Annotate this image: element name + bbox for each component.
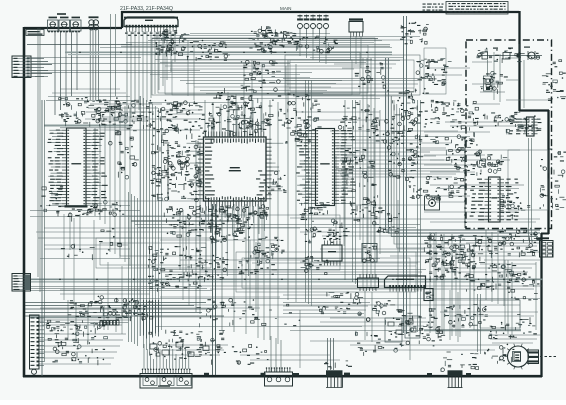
component cluster 60 [122, 299, 153, 321]
component cluster 31 [465, 263, 519, 292]
IC IC801 keyboard ctrl [470, 177, 519, 222]
component cluster 9 [400, 22, 429, 45]
component cluster 6 [275, 31, 299, 47]
boxes right of P1603 [385, 316, 420, 342]
wire mesh extra horizontal [30, 75, 540, 342]
box IC602 [362, 244, 377, 263]
component cluster 72 [416, 60, 443, 83]
bus vertical x385 with bends [386, 58, 540, 252]
note text left [423, 4, 444, 11]
component cluster 1 [59, 97, 120, 127]
component cluster 11 [480, 71, 508, 94]
component cluster 16 [146, 100, 205, 140]
component cluster 62 [232, 344, 269, 365]
component cluster 67 [99, 228, 122, 246]
dash box lower cluster [473, 112, 521, 128]
component cluster 7 [296, 36, 338, 53]
component cluster 69 [284, 120, 311, 144]
line filter coils L901-L903 [48, 13, 82, 31]
component cluster 25 [342, 149, 377, 192]
component cluster 24 [238, 250, 277, 275]
IC IC101 center QFP [187, 113, 284, 224]
component cluster 57 [432, 177, 465, 200]
component cluster 70 [369, 120, 395, 144]
component cluster 47 [252, 304, 300, 326]
title text 21F-PA33 [120, 6, 173, 12]
component cluster 2 [96, 100, 144, 129]
component cluster 55 [372, 210, 399, 233]
component cluster 22 [210, 218, 253, 244]
component cluster 49 [506, 270, 539, 300]
connector P802 dark [424, 289, 434, 301]
component cluster 21 [164, 205, 219, 237]
ladder x465 [464, 137, 466, 228]
component cluster 20 [150, 140, 203, 202]
boxes above P1601 [150, 342, 209, 357]
label box PWB-A [26, 30, 44, 36]
component cluster 18 [226, 93, 321, 133]
component cluster 19 [205, 205, 269, 222]
dash box input chain [478, 44, 542, 92]
IC IC1402 [358, 274, 379, 291]
connector P1603 [326, 370, 343, 387]
connector P901 right edge [540, 241, 554, 258]
wire routing loops [96, 38, 548, 330]
component cluster 68 [264, 171, 287, 194]
component cluster 15 [445, 143, 485, 176]
wires coils down [55, 36, 77, 115]
component cluster 26 [338, 102, 378, 131]
component cluster 53 [187, 253, 228, 282]
component cluster 13 [506, 115, 541, 134]
connector P1501 [30, 315, 45, 374]
component cluster 35 [47, 320, 108, 365]
component cluster 41 [241, 60, 281, 91]
component cluster 37 [489, 314, 537, 339]
bus above IC201 [44, 125, 133, 127]
component cluster 51 [542, 60, 566, 101]
component cluster 42 [209, 88, 256, 119]
component cluster 40 [350, 195, 382, 221]
note box large [446, 2, 508, 15]
component cluster 65 [441, 352, 479, 372]
junction dots bus y52 [79, 51, 368, 53]
wire bundle right of IC301 [340, 152, 452, 164]
wires drops to P1601 [144, 344, 189, 369]
component cluster 48 [355, 331, 397, 356]
component cluster 73 [109, 128, 139, 179]
component cluster 50 [539, 149, 566, 210]
component cluster 8 [387, 88, 428, 140]
component cluster 56 [409, 176, 437, 200]
junctions under coils [48, 31, 80, 36]
component cluster 5 [249, 26, 281, 54]
junction blobs bottom border [204, 373, 471, 376]
component cluster 33 [444, 305, 488, 329]
component cluster 17 [202, 118, 271, 138]
component cluster 3 [155, 29, 189, 56]
wire net horizontal [27, 34, 548, 365]
component cluster 63 [366, 300, 400, 325]
IC IC601 [322, 236, 342, 266]
relay RL901 [349, 18, 363, 36]
IC IC802 right small [508, 117, 537, 136]
component cluster 71 [355, 63, 386, 89]
component cluster 59 [500, 192, 530, 219]
bus band y279-283 [30, 279, 543, 282]
component cluster 43 [86, 200, 124, 216]
component cluster 74 [40, 186, 65, 216]
component cluster 66 [485, 344, 515, 364]
label MAIN [280, 6, 291, 11]
circle mark near CRT [500, 356, 504, 360]
component cluster 39 [304, 219, 349, 243]
component cluster 64 [324, 361, 352, 369]
bus y317 [30, 317, 132, 319]
component cluster 34 [98, 296, 146, 322]
junction dots bus y279 [59, 278, 505, 280]
bus y330 right [424, 329, 521, 331]
component cluster 28 [424, 233, 485, 267]
component cluster 10 [477, 48, 540, 63]
connector P1602 [265, 367, 293, 386]
component cluster 61 [68, 300, 99, 317]
IC I001 tuner strip [124, 17, 178, 36]
IC IC301 right DIP [296, 129, 356, 206]
IC IC1401 jungle [385, 276, 426, 292]
wire bundle bottom-left knot [25, 300, 224, 339]
capacitor row C901-C905 [297, 15, 329, 35]
resistor array RA1 [100, 321, 119, 326]
component cluster 44 [61, 244, 110, 260]
component cluster 38 [300, 202, 330, 220]
ladder x168 [167, 144, 169, 200]
component cluster 32 [396, 308, 445, 347]
component cluster 14 [430, 100, 478, 143]
IC IC201 bottom bracket [65, 205, 93, 221]
transformer T901 [89, 16, 99, 100]
component cluster 27 [387, 137, 423, 181]
connector P601 AV [12, 274, 31, 292]
component cluster 30 [427, 250, 475, 282]
wire net vertical [38, 14, 536, 376]
connector P1604 [448, 370, 463, 387]
resonator box [425, 196, 440, 210]
component cluster 46 [197, 298, 260, 327]
heavy stub at P901 [536, 237, 549, 239]
bus y52 [65, 52, 392, 54]
connector P1601 [140, 369, 192, 388]
component cluster 54 [301, 256, 330, 275]
wires from P801 [31, 59, 52, 77]
component cluster 12 [424, 59, 451, 86]
dash-dot boundary box [466, 40, 552, 229]
IC IC201 left DIP [48, 128, 108, 206]
component cluster 4 [187, 40, 230, 61]
component cluster 36 [149, 330, 226, 365]
wire drops below QFP [206, 206, 264, 276]
wire mesh extra vertical [64, 40, 505, 368]
CRT tube base V901 [505, 344, 558, 370]
svg-text:MAIN: MAIN [280, 6, 291, 11]
component cluster 45 [318, 292, 363, 316]
component cluster 29 [486, 230, 540, 258]
component cluster 23 [148, 246, 208, 292]
component cluster 58 [476, 154, 507, 173]
component cluster 52 [254, 237, 285, 255]
connector P801 [12, 56, 31, 78]
